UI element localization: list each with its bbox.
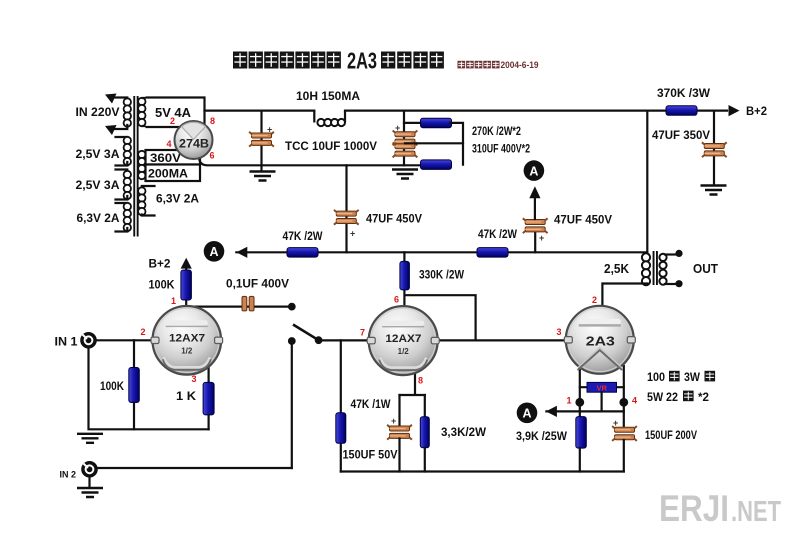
svg-text:200MA: 200MA	[148, 169, 188, 181]
wire cathode cap bottom	[398, 439, 400, 472]
resistor 47K/2W first	[287, 248, 318, 258]
pin 6	[210, 151, 215, 161]
node A circle first	[204, 241, 225, 262]
label 5V 4A	[155, 106, 191, 120]
wire B+2 filter branch	[713, 111, 715, 184]
wire direct coupling to 2A3 grid	[438, 339, 566, 341]
svg-text:6: 6	[210, 151, 215, 161]
svg-text:2,5K: 2,5K	[604, 261, 630, 276]
wire 2A3 filament right	[623, 366, 625, 400]
wire hum pot stubs	[580, 386, 624, 388]
svg-text:1/2: 1/2	[181, 347, 193, 356]
junction switch throw upper	[288, 303, 296, 311]
svg-text:A: A	[529, 164, 538, 178]
tube 274B rectifier	[175, 121, 213, 159]
jack IN 2	[83, 463, 96, 476]
terminal 2A3 pin 1	[575, 398, 584, 407]
wire B+ to output transformer	[646, 111, 648, 254]
capacitor 47UF 450V second	[523, 218, 548, 233]
wire 47UF cap branch first	[345, 165, 347, 252]
svg-text:2,5V 3A: 2,5V 3A	[76, 178, 120, 192]
arrow mains input top	[105, 94, 117, 104]
resistor 270K/2W first	[421, 118, 452, 128]
wire OUT top lead	[665, 253, 676, 255]
plus 150UF 200V	[613, 418, 618, 428]
label 47K /1W	[351, 399, 391, 411]
resistor 100K plate	[181, 270, 192, 300]
wire cathode stage2	[400, 373, 425, 395]
svg-text:47UF 450V: 47UF 450V	[554, 215, 612, 227]
svg-text:3: 3	[191, 374, 196, 384]
pin 8	[418, 376, 423, 386]
capacitor 47UF 350V	[702, 142, 727, 157]
tube V2 details	[379, 333, 427, 370]
wire IN2 ground stub	[88, 476, 90, 487]
pin 4	[632, 396, 637, 406]
wire cathode cap top	[398, 395, 400, 425]
wire 150UF 200V bottom	[623, 440, 625, 472]
wire 2.5V winding-a top lead	[116, 137, 128, 140]
wire arrow to node A upper	[534, 198, 536, 219]
wire B+ rail right	[345, 109, 727, 111]
label 10H 150MA	[296, 91, 360, 103]
svg-text:+: +	[395, 123, 400, 133]
subtitle 桂子整理于 2004-6-19	[458, 60, 539, 70]
tube V1 details	[163, 333, 211, 370]
svg-text:12AX7: 12AX7	[169, 333, 205, 345]
label 100K	[149, 278, 175, 292]
arrow B+2 supply stage1	[181, 258, 192, 269]
svg-text:IN 2: IN 2	[60, 470, 77, 481]
pin 4	[166, 139, 171, 149]
terminal OUT bottom	[675, 280, 682, 287]
wire 150UF 200V top	[623, 402, 625, 426]
label 2,5V 3A	[76, 178, 120, 192]
pin 8	[210, 116, 215, 126]
label TCC 10UF 1000V	[285, 141, 377, 153]
svg-text:1/2: 1/2	[398, 347, 410, 356]
svg-text:6,3V 2A: 6,3V 2A	[156, 194, 199, 206]
ground HV return	[392, 170, 418, 179]
arrow to node A lower	[546, 406, 557, 417]
resistor 3.9K/25W cathode	[576, 417, 587, 449]
winding 6.3V 2A right	[138, 187, 145, 215]
label 2,5V 3A	[76, 147, 120, 161]
label 200MA	[148, 169, 188, 181]
title 关氏四分体直偶 2A3 原机线路	[233, 48, 444, 74]
wire mains bottom lead	[114, 125, 127, 129]
svg-text:2,5V 3A: 2,5V 3A	[76, 147, 120, 161]
svg-text:4: 4	[166, 139, 171, 149]
label 0,1UF 400V	[226, 279, 289, 291]
svg-text:360V: 360V	[150, 153, 181, 165]
resistor 370K/3W	[666, 106, 697, 116]
wire switch to IN2	[291, 341, 293, 468]
wire 3.9K top	[579, 402, 581, 417]
svg-text:VR: VR	[596, 383, 607, 392]
wire TCC cap branch	[260, 111, 262, 170]
label 370K /3W	[657, 88, 710, 100]
resistor 47K/2W second	[477, 248, 508, 258]
svg-text:4: 4	[632, 396, 637, 406]
svg-text:12AX7: 12AX7	[385, 333, 421, 345]
pin 3	[191, 374, 196, 384]
arrow B+2 output	[729, 105, 740, 116]
ground stage1	[77, 434, 103, 443]
wire filter stack midpoint	[405, 142, 463, 144]
label 3,3K/2W	[441, 427, 486, 439]
svg-text:0,1UF 400V: 0,1UF 400V	[226, 279, 289, 291]
node A circle second	[524, 160, 545, 181]
svg-text:8: 8	[210, 116, 215, 126]
svg-text:OUT: OUT	[693, 261, 718, 276]
plus 47UF cap second	[539, 233, 544, 243]
wire 270K right side	[450, 123, 463, 165]
pin 1	[171, 296, 176, 306]
tube V1	[151, 306, 223, 375]
winding 2.5V 3A second	[124, 171, 131, 199]
svg-text:370K /3W: 370K /3W	[657, 88, 710, 100]
svg-text:10H 150MA: 10H 150MA	[296, 91, 360, 103]
svg-text:150UF 200V: 150UF 200V	[645, 430, 697, 442]
wire coupling stage1	[186, 306, 292, 308]
arrow node A upper	[529, 186, 540, 198]
watermark ERJI.NET	[659, 488, 781, 529]
wire filter stack branch	[403, 111, 405, 166]
ground TCC cap	[250, 172, 276, 181]
svg-text:2: 2	[592, 295, 597, 305]
svg-text:2: 2	[140, 327, 145, 337]
capacitor 310UF 400V second	[393, 143, 418, 158]
tube V2	[367, 306, 439, 375]
resistor 3.3K/2W cathode	[420, 417, 429, 448]
resistor 1K cathode	[203, 382, 214, 415]
wire cathode resistor top stage2	[424, 395, 426, 417]
svg-text:2A3: 2A3	[347, 48, 377, 74]
wire cathode stage1	[208, 368, 210, 383]
resistor 100K grid	[129, 368, 140, 403]
resistor 47K/1W	[336, 413, 346, 444]
wire 2.5V winding-a bottom lead	[116, 162, 128, 166]
winding 2.5V 3A first	[124, 137, 131, 165]
label IN 1	[55, 337, 79, 349]
svg-text:+: +	[350, 229, 355, 239]
junction switch pole	[315, 336, 323, 344]
svg-text:47K /2W: 47K /2W	[283, 231, 323, 243]
label 1 K	[176, 391, 197, 403]
winding 6.3V 2A left	[124, 203, 131, 231]
label 150UF 200V	[645, 430, 697, 442]
label 5W 22欧*2	[647, 391, 709, 404]
choke 10H 150MA	[314, 111, 345, 127]
label 6,3V 2A	[77, 211, 120, 225]
tube V3	[564, 306, 635, 374]
label 330K /2W	[419, 270, 464, 282]
label 47UF 350V	[652, 130, 710, 142]
label 47UF 450V	[554, 215, 612, 227]
wire stage1 ground bus	[89, 347, 209, 429]
wire grid resistor bottom stage1	[133, 403, 135, 430]
svg-text:A: A	[209, 245, 218, 259]
pin 2	[592, 295, 597, 305]
winding HV 360V 200MA	[138, 151, 145, 179]
svg-text:150UF 50V: 150UF 50V	[343, 450, 398, 462]
wire 2.5V winding-b top lead	[116, 170, 128, 174]
ground IN2	[77, 488, 103, 497]
svg-text:B+2: B+2	[149, 257, 171, 271]
svg-text:2A3: 2A3	[586, 334, 615, 348]
svg-text:5W 22: 5W 22	[647, 392, 678, 404]
capacitor 310UF 400V first	[393, 131, 418, 146]
wire 6.3V winding bottom lead	[116, 228, 128, 232]
svg-text:3W: 3W	[684, 372, 700, 384]
switch lever	[293, 325, 319, 341]
label OUT	[693, 261, 718, 276]
label 2,5K	[604, 261, 630, 276]
svg-text:3: 3	[556, 327, 561, 337]
wire cathode resistor bottom stage2	[424, 448, 426, 472]
wire heater top lead	[142, 186, 155, 188]
wire OUT bottom lead	[665, 283, 676, 285]
svg-text:TCC 10UF 1000V: TCC 10UF 1000V	[285, 141, 377, 153]
svg-text:100: 100	[647, 372, 665, 384]
label 47K /2W	[478, 229, 517, 241]
ground B+2 filter	[701, 186, 727, 195]
svg-text:2004-6-19: 2004-6-19	[501, 60, 539, 70]
power transformer core	[133, 96, 138, 237]
wire IN2 to switch	[96, 467, 292, 469]
wire 6.3V winding top lead	[116, 203, 128, 206]
wire node A lower rail	[546, 410, 623, 412]
svg-text:1: 1	[171, 296, 176, 306]
wire 2.5V winding-b bottom lead	[116, 196, 128, 200]
svg-text:6: 6	[394, 295, 399, 305]
capacitor 0.1UF 400V coupling	[242, 296, 254, 311]
svg-text:274B: 274B	[179, 139, 209, 151]
wire grid stage1	[95, 339, 153, 341]
jack IN 1	[82, 334, 95, 347]
arrow to node A	[236, 247, 247, 258]
capacitor 150UF 200V	[612, 426, 637, 441]
svg-text:47K /2W: 47K /2W	[478, 229, 517, 241]
label 310UF 400V*2	[472, 144, 530, 156]
node A circle third	[517, 403, 538, 424]
wire 3.9K bottom	[579, 448, 581, 472]
winding primary IN 220V	[124, 98, 131, 126]
svg-text:47UF 350V: 47UF 350V	[652, 130, 710, 142]
label 47K /2W	[283, 231, 323, 243]
svg-text:100K: 100K	[149, 278, 175, 292]
wire cathode ground bus	[341, 470, 624, 472]
wire 47UF cap branch second	[534, 231, 536, 252]
svg-text:1: 1	[566, 396, 571, 406]
svg-text:+: +	[613, 418, 618, 428]
label IN 220V	[76, 105, 120, 119]
pin 6	[394, 295, 399, 305]
svg-text:A: A	[522, 407, 531, 421]
label 6,3V 2A	[156, 194, 199, 206]
svg-text:*2: *2	[698, 392, 709, 404]
terminal OUT top	[675, 250, 682, 257]
label B+2	[746, 104, 767, 118]
svg-text:+: +	[539, 233, 544, 243]
resistor 270K/2W second	[421, 160, 452, 170]
svg-text:47UF 450V: 47UF 450V	[366, 214, 422, 226]
junction switch throw lower	[288, 337, 296, 345]
svg-text:IN 1: IN 1	[55, 337, 79, 349]
label 3,9K /25W	[516, 431, 567, 443]
wire B+ rail left	[205, 109, 315, 111]
label 47UF 450V	[366, 214, 422, 226]
svg-text:310UF 400V*2: 310UF 400V*2	[472, 144, 530, 156]
wire grid resistor top stage1	[133, 340, 135, 367]
label B+2	[149, 257, 171, 271]
svg-text:B+2: B+2	[746, 104, 767, 118]
plus 310UF cap	[395, 123, 400, 133]
label IN 2	[60, 470, 77, 481]
pin 2	[170, 116, 175, 126]
wire to 270K top	[404, 122, 422, 124]
arrow mains input bottom	[105, 125, 117, 135]
svg-text:7: 7	[360, 328, 365, 338]
svg-text:6,3V 2A: 6,3V 2A	[77, 211, 120, 225]
potentiometer VR hum balance	[587, 382, 617, 392]
svg-text:100K: 100K	[100, 381, 125, 393]
box 5V 4A rectifier filament loop	[142, 98, 205, 128]
capacitor 150UF 50V cathode	[387, 425, 412, 440]
label 360V	[150, 153, 181, 165]
plus TCC cap	[267, 125, 272, 135]
pin 2	[140, 327, 145, 337]
terminal 2A3 pin 4	[619, 398, 628, 407]
svg-text:2: 2	[170, 116, 175, 126]
wire grid stage2	[319, 339, 369, 341]
wire hum pot tap	[600, 392, 602, 411]
wire HV return	[199, 153, 422, 165]
svg-text:330K /2W: 330K /2W	[419, 270, 464, 282]
wire cathode resistor bottom	[208, 415, 210, 429]
wire 2A3 plate	[602, 284, 647, 307]
svg-text:.NET: .NET	[731, 496, 781, 528]
pin 1	[566, 396, 571, 406]
capacitor 47UF 450V first	[334, 210, 359, 225]
wire plate stage2	[403, 252, 405, 306]
wire direct coupling upper	[405, 295, 476, 340]
svg-text:270K /2W*2: 270K /2W*2	[472, 126, 521, 138]
svg-text:+: +	[391, 416, 396, 426]
plus 150UF 50V	[391, 416, 396, 426]
wire 2A3 filament left	[579, 366, 581, 400]
svg-text:8: 8	[418, 376, 423, 386]
wire 47K/1W branch	[340, 340, 342, 471]
box 200MA	[146, 165, 201, 182]
wire plate resistor stage1	[185, 268, 187, 307]
label 100欧3W或	[647, 371, 715, 384]
label 150UF 50V	[343, 450, 398, 462]
svg-text:3,9K /25W: 3,9K /25W	[516, 431, 567, 443]
wire node A rail	[236, 251, 647, 253]
box 360V	[146, 150, 201, 165]
pin 3	[556, 327, 561, 337]
svg-text:47K /1W: 47K /1W	[351, 399, 391, 411]
capacitor TCC 10UF 1000V	[249, 132, 274, 147]
output transformer 2.5K	[642, 251, 667, 285]
pin 7	[360, 328, 365, 338]
label 270K /2W*2	[472, 126, 521, 138]
plus 47UF cap first	[350, 229, 355, 239]
label 100K	[100, 381, 125, 393]
svg-text:3,3K/2W: 3,3K/2W	[441, 427, 486, 439]
svg-text:ERJI: ERJI	[659, 488, 729, 529]
winding 5V 4A	[138, 98, 145, 126]
svg-text:+: +	[267, 125, 272, 135]
wire mains top lead	[114, 98, 127, 101]
resistor 330K/2W plate	[400, 261, 410, 290]
svg-text:IN 220V: IN 220V	[76, 105, 120, 119]
svg-text:1 K: 1 K	[176, 391, 197, 403]
wire heater bottom lead	[142, 215, 155, 216]
tube V3 details	[578, 319, 623, 370]
